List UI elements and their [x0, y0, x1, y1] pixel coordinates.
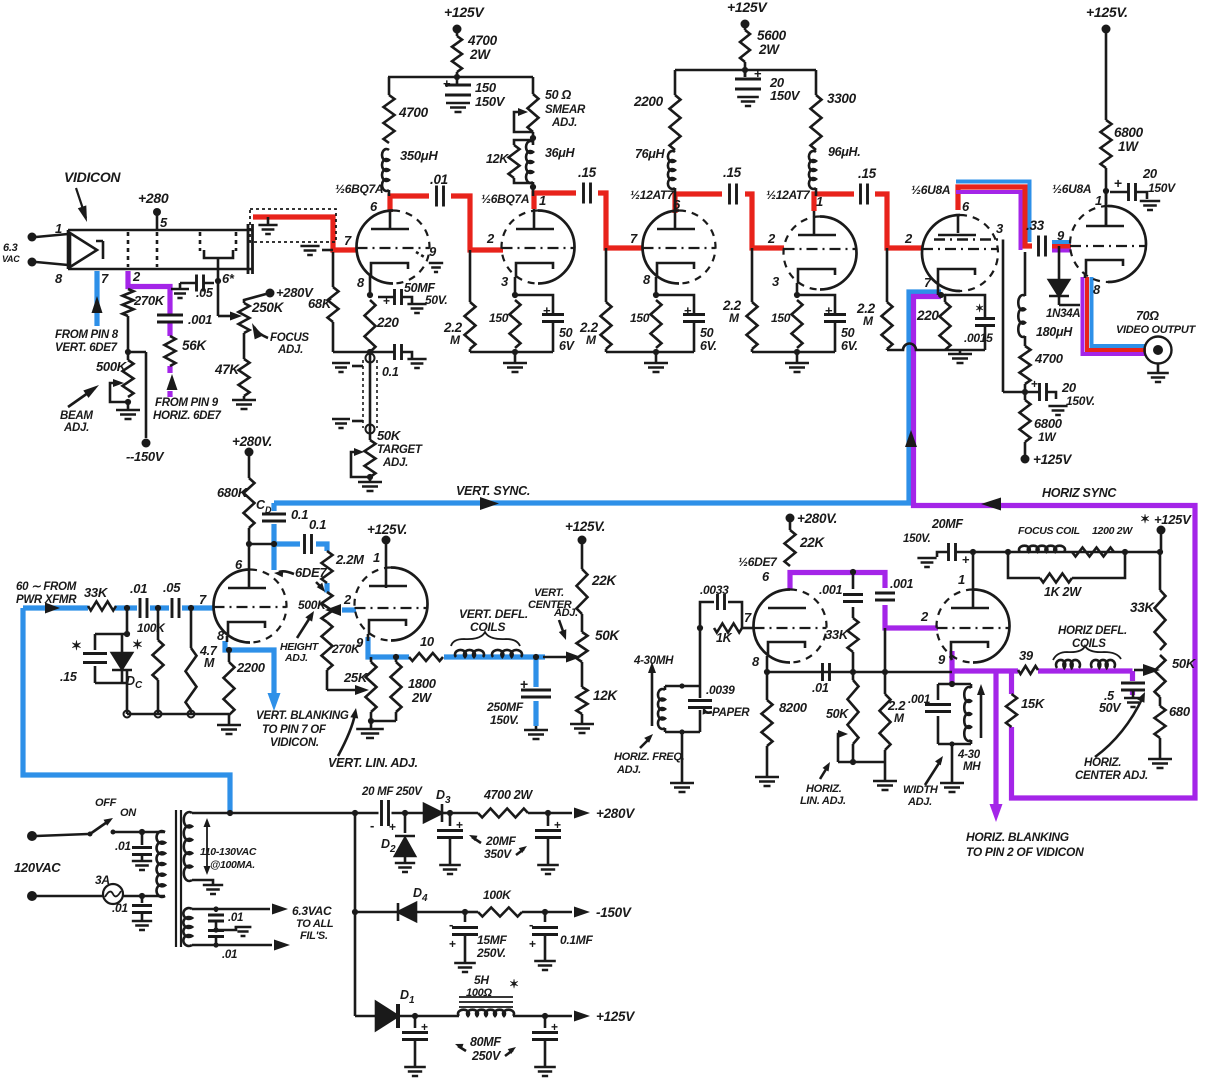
svg-text:9: 9: [938, 652, 946, 667]
svg-text:✶: ✶: [1140, 512, 1150, 526]
wire t6 plate stem: [1105, 191, 1108, 226]
svg-text:@100MA.: @100MA.: [210, 859, 255, 871]
svg-text:+: +: [520, 676, 528, 692]
svg-text:20 MF 250V: 20 MF 250V: [361, 786, 423, 798]
wire t5 cathode stem: [937, 283, 940, 295]
ground t4: [796, 352, 799, 362]
wire 33k h chain: [1159, 552, 1162, 590]
wire 25k 1800 tops: [370, 657, 373, 662]
svg-text:47K: 47K: [214, 362, 240, 377]
choke 5H winding: [415, 1015, 459, 1018]
resistor 2.2M t3: [605, 248, 608, 302]
svg-text:680: 680: [1169, 704, 1191, 719]
wire blue tube6 cathode: [1092, 277, 1147, 346]
svg-text:FIL'S.: FIL'S.: [300, 930, 328, 942]
ground shield bottom: [352, 420, 363, 423]
wire fb right down: [884, 628, 887, 672]
wire purple bundle top: [956, 192, 1071, 251]
wire 680k to junction: [248, 528, 251, 544]
ground 15mf: [454, 963, 476, 972]
inductor 350uH: [382, 149, 389, 191]
resistor 1K 2W: [1040, 574, 1072, 583]
svg-text:M: M: [586, 333, 597, 347]
wire clamp bottom: [95, 682, 127, 685]
resistor 6800 1W low: [1020, 400, 1031, 442]
node +125V rail1: [453, 25, 462, 34]
wire +125v r2: [744, 24, 747, 30]
svg-text:FROM PIN 8: FROM PIN 8: [55, 329, 119, 341]
resistor 4700 2W ps: [450, 812, 478, 815]
svg-text:20MF: 20MF: [485, 834, 516, 848]
svg-text:+280V.: +280V.: [797, 511, 837, 526]
brace vert coils: [451, 632, 520, 646]
capacitor 80MF b: [544, 1016, 547, 1028]
arrow vert center wiper: [566, 652, 581, 663]
node +125V rail2: [741, 20, 750, 29]
svg-text:+: +: [1114, 175, 1122, 191]
node width tank top: [949, 681, 955, 687]
ground 47K: [243, 396, 246, 399]
node vert junction: [246, 541, 252, 547]
svg-text:2: 2: [767, 231, 776, 246]
capacitor 50MF 50V: [395, 289, 402, 305]
svg-text:FOCUS COIL: FOCUS COIL: [1018, 525, 1080, 537]
ground 680: [1159, 738, 1162, 758]
svg-text:22K: 22K: [799, 535, 825, 550]
wire blue input loop to transformer: [23, 608, 230, 812]
resistor 2.2M t2: [469, 250, 472, 302]
svg-text:6: 6: [370, 199, 378, 214]
svg-text:2W: 2W: [758, 42, 780, 57]
svg-text:5: 5: [160, 215, 168, 230]
svg-text:150: 150: [630, 311, 650, 325]
wire diode to cathode: [1059, 304, 1080, 307]
resistor 4700 out: [1024, 336, 1027, 346]
resistor 680: [1159, 697, 1162, 706]
svg-text:220: 220: [376, 315, 399, 330]
svg-text:+: +: [449, 937, 456, 951]
svg-text:9: 9: [356, 635, 364, 650]
svg-text:+125V: +125V: [1033, 452, 1072, 467]
svg-text:HORIZ. BLANKING: HORIZ. BLANKING: [966, 830, 1069, 844]
svg-text:+: +: [456, 818, 463, 832]
svg-text:3300: 3300: [827, 91, 857, 106]
ground 50mf: [407, 304, 426, 313]
wire row3: [355, 1015, 376, 1018]
wire cath line h: [767, 671, 952, 674]
svg-text:8: 8: [55, 271, 63, 286]
wire 2200 branch: [674, 70, 677, 95]
transformer secondary 6.3: [183, 908, 192, 946]
wire t2 plate stem: [533, 209, 536, 229]
capacitor .01 h: [823, 663, 830, 681]
ground .5 cap: [1132, 691, 1135, 697]
terminal 120vac bottom: [27, 891, 37, 901]
node sw out: [139, 829, 145, 835]
node 100k out: [542, 909, 548, 915]
inductor vert defl coil a: [455, 650, 484, 657]
ground 80mf a: [404, 1067, 426, 1076]
svg-text:500K: 500K: [298, 598, 327, 612]
resistor 680K: [244, 478, 255, 528]
svg-text:15K: 15K: [1021, 696, 1046, 711]
svg-text:8200: 8200: [779, 700, 808, 715]
arrow hcenter wiper: [1134, 669, 1144, 672]
wire heater pin8: [36, 262, 68, 265]
svg-text:110-130VAC: 110-130VAC: [200, 846, 257, 858]
svg-text:2: 2: [132, 269, 141, 284]
resistor 4.7M: [190, 608, 193, 648]
arrow focus wiper: [230, 312, 242, 321]
capacitor 20MF 350V: [449, 813, 452, 826]
ground cap rail1: [446, 103, 470, 112]
tube V1 half 6BQ7A: [357, 211, 394, 284]
capacitor 15MF 250V: [464, 912, 467, 922]
ground target: [369, 477, 372, 481]
svg-text:36μH: 36μH: [545, 146, 576, 160]
wire tank to gnd: [681, 732, 684, 782]
svg-text:1W: 1W: [1038, 430, 1057, 444]
svg-text:150V: 150V: [770, 88, 801, 103]
wire video signal red path stage1: [253, 217, 357, 250]
svg-text:7: 7: [744, 610, 752, 625]
svg-text:HORIZ.: HORIZ.: [1084, 757, 1121, 769]
svg-text:0.1: 0.1: [309, 517, 326, 532]
svg-text:76μH: 76μH: [635, 147, 666, 161]
wire blue junction 544: [274, 544, 327, 593]
svg-text:+: +: [543, 303, 551, 318]
arrow tank slug: [651, 666, 654, 726]
svg-text:6: 6: [762, 569, 770, 584]
resistor 150 t2: [510, 300, 521, 348]
arrow height adj: [297, 616, 311, 638]
potentiometer 500K height: [322, 592, 333, 622]
svg-text:50K: 50K: [826, 707, 849, 721]
svg-text:FOCUS: FOCUS: [270, 332, 309, 344]
wire defl to pot: [543, 656, 566, 659]
inductor horiz defl a: [1056, 660, 1080, 668]
svg-text:0.1: 0.1: [291, 507, 308, 522]
svg-text:ADJ.: ADJ.: [277, 344, 303, 356]
svg-text:20: 20: [1061, 380, 1077, 395]
svg-text:220: 220: [916, 308, 939, 323]
capacitor .33 c5: [1039, 236, 1046, 257]
svg-text:1: 1: [539, 193, 546, 208]
svg-text:6800: 6800: [1114, 125, 1144, 140]
inductor 36uH: [526, 141, 533, 183]
ground .05: [179, 283, 182, 288]
svg-text:9: 9: [429, 244, 437, 259]
arrow blue pin7 flow: [92, 296, 103, 313]
resistor 1200 2W: [1072, 548, 1114, 557]
svg-text:350μH: 350μH: [400, 148, 438, 163]
svg-text:2200: 2200: [633, 94, 664, 109]
arrow beam adj: [68, 388, 95, 407]
wire hv top: [192, 812, 355, 815]
ground vert cath: [370, 721, 373, 728]
svg-text:50: 50: [841, 326, 855, 340]
svg-text:BEAM: BEAM: [60, 410, 93, 422]
node +280V horiz: [786, 514, 795, 523]
node +280 top of vidicon: [153, 208, 161, 216]
svg-text:+: +: [1031, 377, 1038, 391]
pot wiper 25k: [355, 685, 369, 695]
resistor 220 t5: [941, 295, 945, 302]
svg-text:TO ALL: TO ALL: [296, 918, 334, 930]
svg-text:10: 10: [420, 634, 435, 649]
node d4 out: [462, 909, 468, 915]
ground shield top: [352, 365, 363, 368]
svg-text:C: C: [135, 680, 143, 691]
svg-text:½6BQ7A: ½6BQ7A: [335, 182, 383, 196]
svg-text:68K: 68K: [308, 296, 333, 311]
node r out: [545, 810, 551, 816]
svg-text:VERT. SYNC.: VERT. SYNC.: [456, 484, 530, 498]
tank 4-30MH coil: [664, 686, 667, 690]
resistor 33K input: [88, 602, 116, 611]
capacitor .001: [157, 315, 183, 322]
shield dotted box: [250, 209, 336, 242]
resistor 220 t1: [365, 300, 376, 352]
svg-text:+: +: [551, 1020, 558, 1034]
svg-text:4-30MH: 4-30MH: [633, 655, 674, 667]
node +125V r3: [1102, 25, 1111, 34]
svg-text:+125V: +125V: [727, 0, 768, 15]
wire ac top: [36, 834, 88, 836]
resistor 1K: [714, 624, 742, 633]
diode D4: [398, 903, 416, 921]
bus rail2: [675, 69, 816, 72]
svg-text:½6U8A: ½6U8A: [1052, 182, 1091, 196]
svg-text:7: 7: [101, 271, 109, 286]
capacitor .0015: [945, 295, 985, 317]
svg-text:PAPER: PAPER: [712, 707, 750, 719]
capacitor 150/150V: [445, 85, 471, 95]
wire blue vert sync from pin7: [274, 292, 941, 503]
wire blue cp drop: [271, 503, 276, 570]
node out junction: [1022, 389, 1028, 395]
inductor 180uH: [1024, 252, 1027, 296]
node fuse out: [139, 893, 145, 899]
svg-text:6DE7: 6DE7: [295, 565, 327, 580]
capacitor 20/150V r2: [735, 79, 761, 89]
svg-text:.0039: .0039: [706, 683, 735, 697]
svg-text:350V: 350V: [484, 847, 512, 861]
svg-text:3: 3: [772, 274, 780, 289]
svg-text:22K: 22K: [591, 573, 617, 588]
svg-text:1W: 1W: [1118, 139, 1139, 154]
svg-text:8: 8: [217, 628, 225, 643]
potentiometer 50ohm smear: [528, 94, 539, 132]
svg-text:VERT.: VERT.: [534, 587, 564, 599]
ground tank: [670, 783, 694, 792]
capacitor .01 c1: [437, 186, 444, 207]
svg-text:OFF: OFF: [95, 797, 117, 809]
svg-text:HORIZ. 6DE7: HORIZ. 6DE7: [153, 410, 222, 422]
capacitor .01 fil a: [215, 909, 218, 912]
svg-text:.15: .15: [723, 165, 742, 180]
capacitor .001 a: [843, 595, 863, 602]
svg-text:+280: +280: [138, 190, 169, 206]
wire blue bundle top: [956, 182, 1071, 243]
svg-text:2.2M: 2.2M: [335, 552, 365, 567]
wire red tube4 plate to tube5 grid: [814, 194, 923, 248]
wire tank to pin1: [532, 182, 535, 196]
capacitor .15 clamp: [94, 634, 97, 650]
arrow 6de7 left: [279, 571, 294, 574]
svg-text:½6U8A: ½6U8A: [911, 183, 950, 197]
arrow blue vert blanking down: [268, 693, 281, 711]
inductor vert defl coil b: [492, 650, 522, 657]
wire rail2 stub: [744, 70, 747, 77]
svg-text:0.1MF: 0.1MF: [560, 933, 593, 947]
transformer core: [176, 810, 181, 947]
resistor 100K input: [157, 608, 160, 640]
wire t4 cathode stem: [796, 283, 799, 295]
inductor 96uH: [809, 151, 816, 189]
wire rail to smear: [532, 77, 535, 94]
vidicon pin6 stem: [217, 258, 220, 280]
svg-text:2: 2: [486, 231, 495, 246]
resistor 270K: [123, 289, 134, 316]
ground cap rail2: [737, 97, 759, 106]
svg-text:8: 8: [643, 272, 651, 287]
potentiometer 50K vc: [577, 632, 588, 662]
capacitor .001 width: [937, 684, 940, 744]
svg-text:100K: 100K: [137, 621, 166, 635]
wire to -150 arrow: [545, 911, 572, 914]
wire input bottom bus: [127, 713, 229, 716]
wire top chain: [973, 551, 1160, 554]
vidicon grid dashed 1: [127, 232, 130, 267]
svg-text:6V.: 6V.: [700, 339, 717, 353]
inductor width 4-30MH: [970, 684, 973, 688]
svg-text:.01: .01: [228, 912, 243, 924]
svg-text:500K: 500K: [96, 359, 128, 374]
wire vt2 plate: [385, 540, 388, 588]
resistor 39: [1018, 666, 1038, 674]
ground 0.1 t1: [407, 359, 426, 368]
terminal 6.3vac bottom: [28, 258, 37, 267]
svg-text:150: 150: [771, 311, 791, 325]
wire r2 stem: [744, 62, 747, 77]
potentiometer 50K hcenter: [1155, 655, 1166, 697]
wire to 125 arrow: [545, 1015, 572, 1018]
svg-text:2W: 2W: [469, 47, 491, 62]
svg-text:½6DE7: ½6DE7: [738, 555, 778, 569]
wire h2 cathode stem: [950, 656, 952, 660]
svg-text:.33: .33: [1026, 218, 1045, 233]
svg-text:50K: 50K: [595, 628, 620, 643]
svg-text:180μH: 180μH: [1036, 325, 1073, 339]
svg-text:2: 2: [389, 844, 396, 855]
capacitor 50/6V t3: [656, 295, 694, 313]
svg-text:1K 2W: 1K 2W: [1044, 585, 1082, 599]
svg-text:.001: .001: [188, 312, 212, 327]
svg-text:250K: 250K: [251, 300, 285, 315]
potentiometer 250K focus: [239, 303, 250, 333]
node pin6 star: [215, 278, 221, 284]
connector 70ohm video output: [1145, 337, 1172, 364]
vidicon g4 electrode: [204, 250, 233, 258]
capacitor .01 line a: [141, 832, 144, 845]
svg-text:+: +: [443, 76, 451, 91]
diode 1N34A: [1058, 246, 1061, 279]
svg-text:VERT. BLANKING: VERT. BLANKING: [256, 710, 349, 722]
wire t6 cathode stem: [1084, 274, 1087, 278]
svg-text:+125V: +125V: [1154, 512, 1192, 527]
wire hv bottom: [192, 880, 213, 884]
svg-text:.001: .001: [819, 583, 842, 597]
ground t3: [655, 352, 658, 362]
wire width gnd: [951, 744, 954, 782]
svg-text:.01: .01: [222, 949, 237, 961]
wire 270k-500k: [127, 352, 130, 360]
svg-text:4700: 4700: [467, 33, 498, 48]
svg-text:HORIZ. FREQ.: HORIZ. FREQ.: [614, 751, 685, 763]
terminal -150V: [142, 439, 151, 448]
svg-text:6*: 6*: [222, 271, 235, 286]
capacitor 250MF 150V: [521, 690, 551, 697]
ground t5: [959, 350, 962, 353]
svg-text:✶: ✶: [71, 638, 82, 653]
tube V2 half 6BQ7A: [538, 211, 575, 284]
bus rail1: [388, 76, 533, 79]
svg-text:250V.: 250V.: [476, 946, 506, 960]
arrow horiz sync: [981, 498, 1001, 511]
tube V4 half 12AT7: [820, 217, 857, 290]
svg-text:2: 2: [343, 592, 352, 607]
ground shield: [267, 217, 270, 224]
wire +280 to vidicon: [156, 212, 159, 230]
wire row2: [355, 911, 398, 914]
arrow 6.3 top: [272, 904, 288, 915]
svg-text:.05: .05: [196, 286, 214, 300]
arrow purple horiz blanking down: [990, 804, 1003, 822]
wire t4 plate stem: [813, 211, 816, 235]
svg-text:COILS: COILS: [1072, 638, 1106, 650]
svg-text:6V.: 6V.: [841, 339, 858, 353]
resistor 8200: [766, 672, 769, 700]
wire screen to junction: [1003, 391, 1025, 394]
resistor 1800 2W: [391, 662, 402, 712]
resistor 2.2M t4: [751, 248, 754, 302]
svg-text:250MF: 250MF: [486, 700, 524, 714]
svg-text:100K: 100K: [483, 888, 512, 902]
transformer T1 primary: [157, 831, 165, 897]
pot wiper height: [325, 604, 341, 616]
svg-text:3: 3: [445, 795, 451, 806]
svg-text:+280V.: +280V.: [232, 434, 272, 449]
node t1 cath bottom: [367, 349, 373, 355]
pot wiper hlin: [838, 734, 840, 762]
capacitor .15 c3: [730, 184, 737, 205]
svg-text:2: 2: [920, 609, 929, 624]
wire purple defl line: [952, 671, 1133, 695]
node +125V h: [1157, 526, 1166, 535]
svg-text:-: -: [449, 917, 453, 932]
resistor 2.2M h: [884, 672, 887, 694]
svg-text:+125V: +125V: [596, 1009, 635, 1024]
svg-text:✶: ✶: [975, 303, 984, 315]
wire to xfmr top: [142, 831, 165, 834]
node +125V vc: [578, 536, 587, 545]
wire to xfmr bottom: [142, 895, 165, 898]
capacitor .0039: [699, 686, 702, 732]
svg-text:M: M: [863, 314, 874, 328]
wire 280 to 680k: [248, 452, 251, 478]
bus ps vertical: [354, 813, 357, 1016]
